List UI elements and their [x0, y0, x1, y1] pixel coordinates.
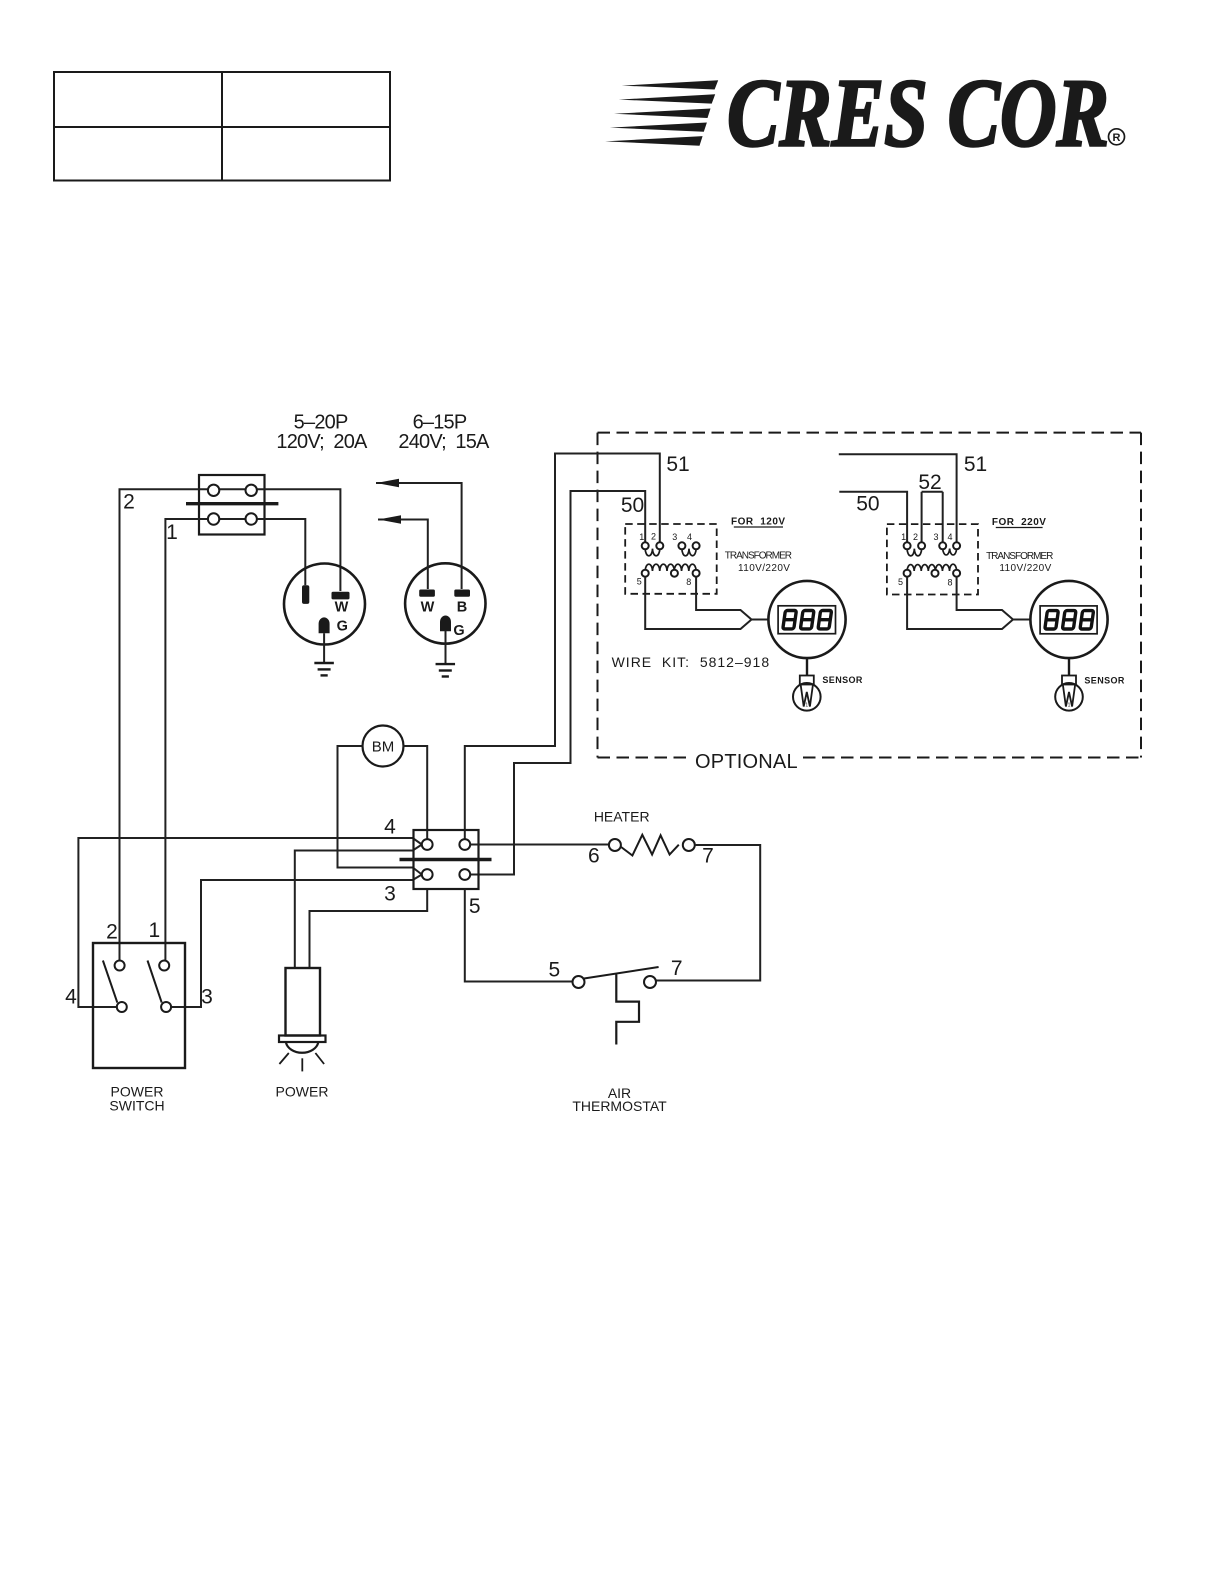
blower motor BM [363, 726, 404, 767]
label AIR THERMOSTAT [572, 1085, 667, 1114]
wire BM right lead to terminal 4 [404, 746, 428, 839]
svg-text:120V; 20A: 120V; 20A [276, 431, 368, 453]
svg-text:5: 5 [898, 577, 903, 587]
svg-text:4: 4 [687, 532, 692, 542]
power lamp rays [279, 1053, 324, 1071]
wire terminal 5 to thermostat 5 [465, 889, 573, 981]
svg-text:SENSOR: SENSOR [822, 675, 863, 685]
svg-text:3: 3 [672, 532, 677, 542]
svg-text:2: 2 [651, 532, 656, 542]
svg-text:W: W [335, 600, 349, 616]
svg-text:7: 7 [671, 957, 683, 980]
ground symbol P2 [436, 664, 456, 676]
terminal block TB1 (cord block) [186, 475, 278, 535]
svg-text:THERMOSTAT: THERMOSTAT [572, 1098, 667, 1114]
sensor S2 lead [1068, 658, 1070, 675]
svg-text:TRANSFORMER: TRANSFORMER [986, 551, 1053, 562]
power lamp body [279, 968, 326, 1053]
svg-text:52: 52 [918, 471, 941, 494]
svg-text:51: 51 [666, 453, 689, 476]
svg-text:W: W [421, 600, 435, 616]
transformer T1 dashed box [625, 524, 717, 594]
plug P2 B slot [454, 590, 470, 597]
transformer T1 label FOR 120V [731, 517, 786, 528]
terminal block TB2 [400, 830, 492, 889]
svg-text:5: 5 [548, 959, 560, 982]
wire T1 pin8 to display D1 [696, 577, 751, 620]
wire T1 pin5 to display D1 [645, 577, 768, 629]
transformer T2 label FOR 220V [992, 517, 1047, 528]
transformer T2 pin links [907, 549, 957, 556]
TB2 terminals [422, 839, 470, 880]
transformer T1 coil taps 5,8 [642, 570, 700, 577]
svg-text:4: 4 [384, 816, 396, 839]
label 6-15P 240V; 15A [398, 412, 490, 454]
svg-text:2: 2 [106, 921, 118, 944]
svg-text:1: 1 [639, 532, 644, 542]
label 5-20P 120V; 20A [276, 412, 368, 454]
svg-text:CRES COR: CRES COR [727, 60, 1109, 167]
svg-text:8: 8 [947, 578, 952, 588]
svg-text:110V/220V: 110V/220V [738, 563, 790, 574]
label POWER SWITCH [109, 1084, 164, 1114]
svg-text:POWER: POWER [276, 1084, 329, 1100]
wire 1 (line to hot of 5-20P plug) [165, 519, 305, 960]
wire terminal 6 to heater [470, 844, 609, 846]
arrow wire to B of 6-15P [376, 479, 462, 589]
svg-text:5: 5 [469, 895, 481, 918]
wire T2 pin8 to display D2 [957, 577, 1013, 620]
plug P2 ground wire [445, 631, 447, 664]
svg-text:R: R [1113, 132, 1121, 144]
svg-text:3: 3 [933, 532, 938, 542]
wire 3 (power switch to terminal 3) [171, 875, 422, 1008]
svg-text:SWITCH: SWITCH [109, 1098, 164, 1114]
svg-text:51: 51 [964, 453, 987, 476]
transformer T1 secondary coil [645, 564, 696, 571]
wire 4 (power switch to terminal 4) [78, 838, 422, 1007]
svg-text:1: 1 [166, 521, 178, 544]
wire 51 (left transformer feed) [465, 454, 660, 840]
plug P1 5-20P outline [284, 564, 365, 645]
digital display D2 [1030, 581, 1107, 658]
wire 52 (right transformer jumper feeds) [922, 492, 943, 543]
svg-text:G: G [337, 619, 348, 635]
transformer T2 pin numbers [898, 532, 953, 587]
plug P1 ground wire [323, 633, 325, 662]
sensor S1 lead [806, 658, 808, 675]
heater resistor [609, 835, 695, 856]
transformer T2 coil taps 5,8 [904, 570, 961, 577]
power switch box [93, 943, 185, 1068]
power switch pole B [148, 961, 172, 1013]
sensor S1 [793, 676, 821, 711]
svg-text:FOR 120V: FOR 120V [731, 517, 786, 528]
plug P1 W slot [332, 592, 350, 600]
svg-text:240V; 15A: 240V; 15A [398, 431, 490, 453]
transformer T1 pin links [645, 549, 696, 556]
svg-text:OPTIONAL: OPTIONAL [695, 751, 798, 773]
svg-text:B: B [457, 600, 467, 616]
wire 51 (right transformer feed) [839, 454, 957, 542]
svg-text:1: 1 [901, 532, 906, 542]
transformer T1 pins 1-4 [642, 542, 700, 549]
arrow wire to W of 6-15P [378, 515, 428, 589]
transformer T2 dashed box [887, 524, 978, 594]
transformer T2 pins 1-4 [904, 542, 961, 549]
svg-text:SENSOR: SENSOR [1084, 675, 1125, 685]
svg-text:3: 3 [201, 986, 213, 1009]
wire BM left lead to terminal 3 [338, 746, 422, 875]
svg-text:TRANSFORMER: TRANSFORMER [725, 551, 792, 562]
plug P2 6-15P outline [405, 563, 485, 643]
svg-text:110V/220V: 110V/220V [999, 563, 1051, 574]
plug P1 ground pin [319, 617, 330, 633]
title block table [54, 72, 390, 181]
svg-text:50: 50 [856, 493, 879, 516]
wire lamp lead to terminal 3 [310, 889, 428, 968]
svg-text:WIRE KIT: 5812–918: WIRE KIT: 5812–918 [612, 654, 771, 670]
svg-text:50: 50 [621, 494, 644, 517]
plug P2 W slot [419, 590, 435, 597]
svg-text:4: 4 [947, 532, 952, 542]
TB1 terminals [208, 485, 257, 525]
wire 50 (left transformer feed) [470, 491, 645, 875]
optional section dashed border [598, 433, 1142, 758]
registered trademark symbol [1109, 129, 1125, 145]
svg-text:2: 2 [123, 491, 135, 514]
svg-text:6: 6 [588, 845, 600, 868]
wire lamp lead to terminal 4 [295, 845, 422, 969]
wire 50 (right transformer feed) [839, 492, 907, 543]
Cres Cor logo speed lines [605, 80, 718, 145]
digital display D1 [768, 581, 845, 658]
plug P2 ground pin [440, 616, 451, 632]
wire heater to thermostat 7 [656, 845, 760, 981]
svg-text:3: 3 [384, 883, 396, 906]
svg-text:8: 8 [686, 577, 691, 587]
wire 2 (line to W of 5-20P plug) [120, 489, 341, 960]
svg-text:HEATER: HEATER [594, 809, 650, 825]
power switch pole A [103, 961, 127, 1013]
transformer T2 label [986, 551, 1053, 574]
sensor S2 [1055, 676, 1083, 711]
svg-text:BM: BM [372, 739, 395, 756]
svg-text:4: 4 [65, 986, 77, 1009]
svg-text:5: 5 [637, 577, 642, 587]
transformer T1 label [725, 551, 792, 575]
plug P1 neutral slot [302, 585, 309, 604]
svg-text:FOR 220V: FOR 220V [992, 517, 1047, 528]
svg-text:2: 2 [913, 532, 918, 542]
air thermostat switch [573, 967, 659, 1045]
svg-text:7: 7 [702, 845, 714, 868]
wire T2 pin5 to display D2 [907, 577, 1030, 629]
svg-text:G: G [453, 623, 464, 639]
ground symbol P1 [314, 663, 334, 675]
transformer T2 secondary coil [907, 564, 957, 571]
svg-text:1: 1 [149, 919, 161, 942]
transformer T1 pin numbers [637, 532, 692, 588]
